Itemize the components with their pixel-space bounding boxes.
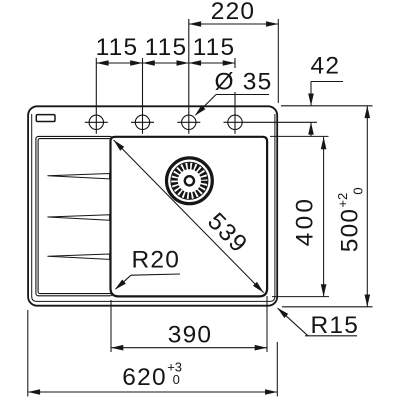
- groove 1: [48, 174, 110, 179]
- label diameter 35 with leader: [212, 68, 272, 92]
- svg-text:115: 115: [145, 34, 188, 61]
- faucet hole 4: [224, 58, 318, 134]
- groove 2: [48, 215, 110, 220]
- sink outer outline: [28, 106, 277, 305]
- faucet hole 3: [177, 19, 200, 134]
- dimension 220: [189, 19, 278, 103]
- svg-text:390: 390: [168, 322, 212, 349]
- extension line sink top edge right: [281, 105, 373, 107]
- svg-text:115: 115: [193, 34, 236, 61]
- svg-text:+2: +2: [335, 193, 350, 208]
- drain center ring: [185, 176, 194, 185]
- groove 3: [48, 254, 110, 259]
- dimension 390: [110, 300, 112, 352]
- dimension 400: [323, 137, 325, 297]
- svg-text:115: 115: [96, 34, 139, 61]
- svg-text:620: 620: [122, 364, 166, 391]
- drain outer ring: [167, 158, 213, 204]
- extension line sink bottom right: [282, 306, 373, 308]
- svg-text:0: 0: [173, 372, 180, 387]
- dimension 500 +2/0: [366, 106, 368, 307]
- svg-text:0: 0: [350, 187, 365, 194]
- sink inner rim line: [32, 114, 275, 301]
- drain inner thin circle: [171, 162, 208, 199]
- dimension 115 (x3): [96, 62, 235, 64]
- svg-text:R20: R20: [132, 247, 181, 274]
- faucet hole 2: [131, 58, 154, 134]
- drain strainer tick ring: [174, 166, 204, 196]
- drainboard outline outer: [36, 136, 113, 295]
- drainboard outline inner: [38, 139, 112, 294]
- svg-text:220: 220: [211, 0, 255, 25]
- svg-text:400: 400: [292, 196, 319, 246]
- extension line bowl bottom right: [272, 296, 329, 298]
- faucet hole 1: [85, 58, 108, 134]
- extension line bowl top right: [270, 135, 329, 137]
- dimension 620 +3/0: [27, 310, 29, 397]
- svg-text:R15: R15: [311, 312, 360, 339]
- svg-text:42: 42: [311, 53, 341, 80]
- dimension 539 diagonal: [114, 140, 264, 293]
- bowl outline: [111, 137, 268, 297]
- svg-text:Ø 35: Ø 35: [215, 69, 273, 96]
- svg-text:500: 500: [336, 208, 363, 252]
- logo badge rectangle: [36, 115, 55, 122]
- dimension 42: [311, 81, 343, 83]
